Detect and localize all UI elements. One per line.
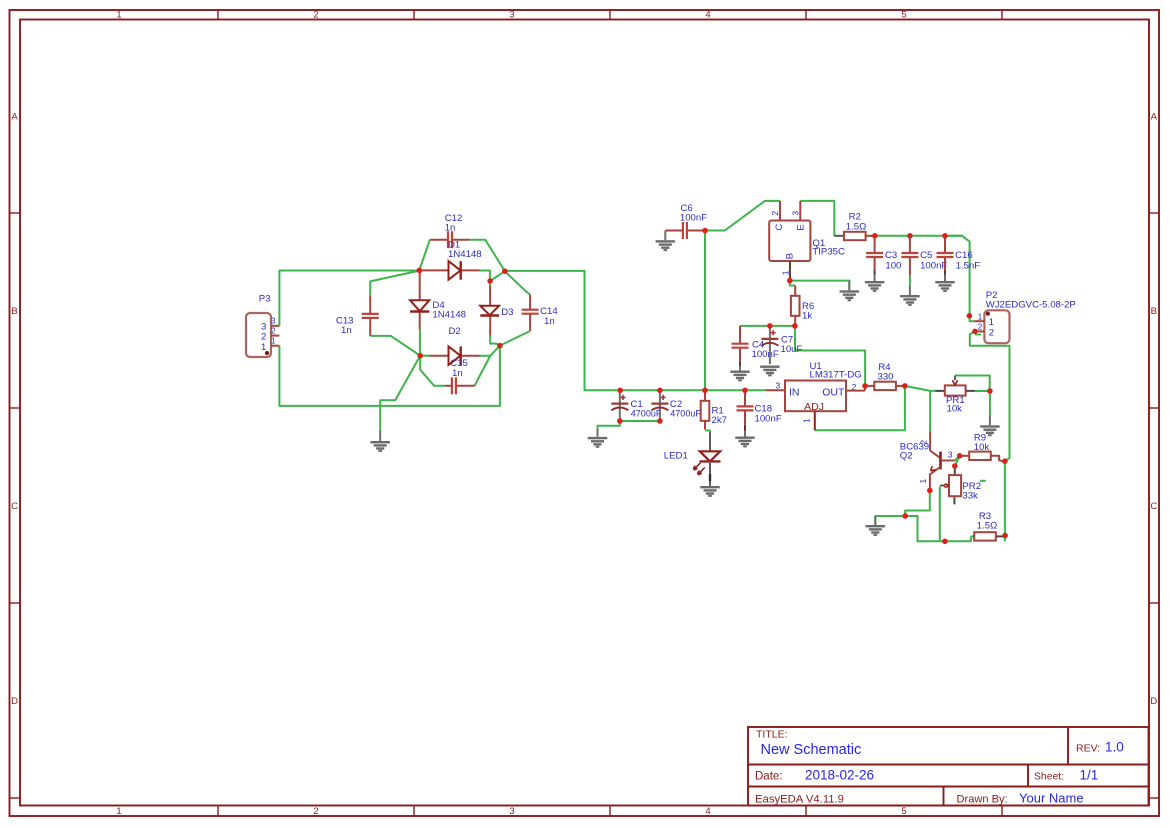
svg-text:1.0: 1.0 — [1105, 740, 1124, 755]
junction 20 — [972, 329, 978, 335]
wire C12 right diagonal — [470, 240, 505, 271]
wire R3 right node column — [1004, 461, 1006, 541]
svg-text:LED1: LED1 — [664, 451, 688, 462]
resistor R2 — [844, 212, 875, 241]
diode D3 — [480, 285, 513, 335]
svg-text:2: 2 — [919, 440, 929, 445]
junction 15 — [767, 323, 773, 329]
svg-text:3: 3 — [509, 10, 514, 21]
wire P3 pin1 to bottom bus — [279, 346, 500, 406]
column labels — [116, 10, 906, 818]
junction 25 — [987, 388, 993, 394]
junction 11 — [617, 418, 623, 424]
svg-text:2: 2 — [852, 382, 857, 392]
svg-text:1: 1 — [978, 312, 983, 321]
capacitor C5 — [901, 236, 947, 275]
svg-text:100nF: 100nF — [920, 261, 947, 272]
wire D2 cathode to right node — [480, 346, 500, 356]
wire top bus to IN bus — [505, 271, 766, 390]
svg-text:330: 330 — [877, 371, 893, 382]
svg-text:D: D — [11, 696, 18, 707]
wire Q2 base drop — [929, 391, 931, 431]
svg-text:B: B — [1151, 306, 1157, 317]
capacitor C18 — [737, 390, 782, 431]
svg-text:2: 2 — [271, 326, 276, 335]
svg-text:REV:: REV: — [1076, 743, 1100, 755]
junction 10 — [742, 388, 748, 394]
svg-text:10uF: 10uF — [781, 344, 803, 355]
svg-text:1k: 1k — [802, 310, 812, 321]
wire R2 right bus over C3 C5 C16 — [875, 235, 962, 237]
svg-text:Q2: Q2 — [900, 450, 913, 461]
svg-text:2: 2 — [989, 328, 994, 339]
svg-text:2: 2 — [313, 806, 318, 817]
ground C1 C2 — [588, 429, 608, 448]
junction 22 — [902, 383, 908, 389]
wire ground node left — [875, 516, 905, 525]
junction 12 — [657, 418, 663, 424]
ground Q2 emitter — [866, 516, 886, 536]
junction 28 — [942, 539, 948, 545]
wire C1 bottom to ground jog — [598, 421, 620, 430]
junction 19 — [967, 313, 973, 319]
wire C13 bottom to center node — [370, 336, 420, 356]
junction 27 — [902, 513, 908, 519]
wire C1 C2 bottom link — [620, 420, 660, 422]
junction 13 — [787, 278, 793, 284]
junction 9 — [702, 388, 708, 394]
wire C4 C7 R6 bus — [740, 325, 795, 327]
junction 1 — [417, 268, 423, 274]
transistor Q2 — [900, 431, 955, 490]
ground C3 — [865, 275, 885, 292]
svg-text:4: 4 — [705, 10, 710, 21]
junction 18 — [942, 233, 948, 239]
svg-text:WJ2EDGVC-5.08-2P: WJ2EDGVC-5.08-2P — [986, 300, 1076, 311]
capacitor C7 — [761, 327, 802, 364]
capacitor C1 — [611, 392, 662, 420]
diode D1 — [419, 239, 481, 279]
connector P3 — [246, 294, 279, 358]
regulator U1 — [766, 361, 865, 430]
svg-text:1n: 1n — [445, 222, 456, 233]
svg-text:EasyEDA V4.11.9: EasyEDA V4.11.9 — [755, 794, 844, 806]
svg-text:A: A — [1151, 112, 1158, 123]
svg-text:C16: C16 — [955, 250, 973, 261]
junction 17 — [907, 233, 913, 239]
svg-text:2: 2 — [978, 323, 983, 332]
capacitor C13 — [336, 295, 379, 336]
diode D4 — [410, 272, 466, 329]
wire Q1 base node to ground — [790, 281, 850, 291]
junction 8 — [657, 388, 663, 394]
wire PR1 wiper to right — [955, 376, 990, 392]
wire C14 bottom to right node — [500, 331, 530, 346]
svg-text:Date:: Date: — [755, 771, 783, 783]
resistor R6 — [791, 286, 814, 326]
ground C6 — [656, 231, 676, 252]
svg-text:C: C — [11, 501, 18, 512]
wire Q2 emitter down to ground node — [905, 491, 930, 517]
junction 14 — [792, 323, 798, 329]
ground C18 — [735, 431, 755, 448]
capacitor C14 — [522, 295, 559, 331]
svg-text:5: 5 — [901, 806, 906, 817]
svg-text:4: 4 — [705, 806, 710, 817]
capacitor C2 — [651, 392, 701, 420]
capacitor C4 — [732, 326, 779, 366]
svg-text:1.5Ω: 1.5Ω — [977, 521, 998, 532]
wire PR2 wiper drop — [939, 487, 941, 542]
svg-text:ADJ: ADJ — [804, 401, 824, 413]
junction 2 — [502, 268, 508, 274]
wire R9 node to PR2 top — [955, 456, 960, 466]
ground C5 — [900, 286, 920, 306]
svg-text:D3: D3 — [501, 307, 513, 318]
wire P2 pin1 jog — [970, 316, 975, 321]
transistor Q1 — [769, 201, 845, 281]
svg-text:LM317T-DG: LM317T-DG — [810, 370, 862, 381]
svg-text:OUT: OUT — [822, 386, 845, 398]
svg-text:100nF: 100nF — [752, 349, 779, 360]
svg-text:D: D — [1150, 696, 1157, 707]
ground PR1 — [980, 416, 1000, 437]
svg-text:D2: D2 — [449, 326, 461, 337]
ground LED1 — [700, 486, 720, 497]
junction 4 — [417, 353, 423, 359]
wire node to bus junction — [490, 271, 505, 281]
wire center node to D2 anode — [420, 355, 430, 357]
wire ground node to R3 left — [905, 516, 971, 541]
svg-text:IN: IN — [789, 386, 800, 398]
svg-text:1: 1 — [271, 336, 276, 345]
svg-text:Your Name: Your Name — [1019, 791, 1084, 806]
svg-text:2018-02-26: 2018-02-26 — [805, 768, 874, 783]
wire C6 to Q1 collector pin — [705, 201, 780, 231]
junction 23 — [957, 453, 963, 459]
wire center node to ground branch — [380, 356, 420, 430]
capacitor C15 — [445, 358, 474, 394]
wire C6 node down to IN bus — [704, 231, 706, 391]
svg-text:E: E — [795, 224, 806, 230]
svg-text:2: 2 — [313, 10, 318, 21]
wire P3 pin3 to top bus — [279, 271, 419, 326]
wire D1 cathode bend to node — [480, 271, 490, 282]
svg-text:2k7: 2k7 — [712, 415, 727, 426]
wire base node to R6 jog — [790, 281, 795, 286]
svg-text:B: B — [785, 253, 796, 259]
junction 29 — [1002, 458, 1008, 464]
svg-text:P3: P3 — [259, 294, 271, 305]
row labels — [11, 112, 1158, 708]
potentiometer PR1 — [936, 376, 975, 415]
wire R4 right to PR1 — [905, 386, 936, 391]
svg-text:4700uF: 4700uF — [670, 409, 701, 419]
svg-text:C3: C3 — [885, 250, 897, 261]
svg-text:TIP35C: TIP35C — [812, 247, 845, 258]
svg-text:TITLE:: TITLE: — [756, 729, 788, 741]
svg-text:1n: 1n — [544, 316, 555, 327]
svg-text:5: 5 — [901, 10, 906, 21]
svg-text:2: 2 — [770, 211, 780, 216]
wire C13 top diagonal — [370, 271, 419, 296]
junction 3 — [487, 278, 493, 284]
svg-text:33k: 33k — [962, 491, 978, 502]
wire R1 bottom jog — [705, 431, 710, 433]
wire bus junction to C14 top — [505, 271, 530, 294]
wire D3 bottom to right node — [490, 336, 500, 346]
junction 16 — [872, 233, 878, 239]
junction 21 — [862, 383, 868, 389]
svg-text:3: 3 — [271, 316, 276, 325]
svg-text:1N4148: 1N4148 — [432, 309, 466, 320]
ground C7 — [760, 366, 780, 377]
resistor R3 — [971, 511, 1004, 540]
junction 6 — [702, 228, 708, 234]
svg-text:10k: 10k — [974, 442, 990, 453]
svg-text:100nF: 100nF — [755, 414, 782, 425]
svg-text:A: A — [11, 112, 18, 123]
ground bridge — [370, 430, 390, 452]
potentiometer PR2 — [940, 466, 986, 504]
junction 26 — [927, 488, 933, 494]
LED LED1 — [664, 432, 721, 486]
wire P2 pin2 to R9 R3 column — [970, 331, 1010, 461]
wire center node to C15 left — [420, 356, 445, 386]
resistor R1 — [701, 390, 727, 429]
connector P2 — [974, 290, 1076, 343]
svg-text:1: 1 — [116, 10, 121, 21]
resistor R4 — [865, 362, 905, 390]
svg-text:3: 3 — [948, 450, 953, 460]
ground Q1 base — [840, 281, 860, 302]
svg-text:1: 1 — [781, 270, 791, 275]
svg-text:1.5nF: 1.5nF — [956, 261, 981, 272]
wire C15 right diagonal — [475, 356, 491, 386]
svg-text:3: 3 — [776, 380, 781, 390]
wire C12 left diagonal — [419, 240, 430, 271]
wire segment R2 left lead — [834, 235, 844, 237]
svg-text:C: C — [774, 224, 785, 231]
svg-text:1: 1 — [918, 479, 928, 484]
svg-text:Sheet:: Sheet: — [1034, 772, 1064, 783]
svg-text:1n: 1n — [341, 325, 352, 336]
svg-text:B: B — [11, 306, 17, 317]
svg-text:3: 3 — [509, 806, 514, 817]
junction 30 — [1002, 533, 1008, 539]
svg-text:4700uF: 4700uF — [631, 409, 662, 419]
junction 5 — [497, 343, 503, 349]
svg-text:C: C — [1150, 501, 1157, 512]
capacitor C12 — [430, 213, 470, 248]
wire R6 to R4 node — [795, 326, 865, 386]
wire Q2 collector diagonal — [955, 456, 960, 461]
diode D2 — [430, 326, 480, 365]
junction 24 — [952, 463, 958, 469]
capacitor C3 — [866, 236, 901, 275]
svg-text:1: 1 — [116, 806, 121, 817]
wire C5 mid segment — [909, 275, 911, 286]
junction 7 — [617, 388, 623, 394]
svg-text:1.5Ω: 1.5Ω — [846, 221, 867, 232]
svg-text:C5: C5 — [920, 250, 932, 261]
svg-text:1n: 1n — [452, 368, 463, 379]
svg-text:3: 3 — [790, 211, 800, 216]
svg-text:Drawn By:: Drawn By: — [957, 794, 1008, 806]
capacitor C6 — [665, 203, 707, 239]
svg-text:1/1: 1/1 — [1080, 768, 1099, 783]
capacitor C16 — [937, 236, 981, 275]
svg-text:100: 100 — [885, 261, 901, 272]
wire P2 pin2 stub — [975, 334, 981, 336]
svg-text:1: 1 — [802, 418, 812, 423]
resistor R9 — [960, 433, 1004, 462]
svg-text:100nF: 100nF — [680, 213, 707, 224]
wire node D3 top — [489, 281, 491, 285]
wire D4 cathode to center node — [419, 329, 421, 356]
svg-text:1: 1 — [261, 342, 266, 353]
ground C16 — [935, 275, 955, 292]
wire ADJ feedback — [815, 386, 905, 430]
ground C4 — [730, 366, 750, 381]
wire PR1 right to ground — [975, 391, 990, 416]
svg-text:New Schematic: New Schematic — [761, 742, 862, 758]
svg-text:10k: 10k — [947, 404, 963, 415]
svg-text:1N4148: 1N4148 — [448, 249, 482, 260]
wire Q1 emitter to R2 — [800, 201, 834, 236]
title block — [748, 727, 1149, 806]
